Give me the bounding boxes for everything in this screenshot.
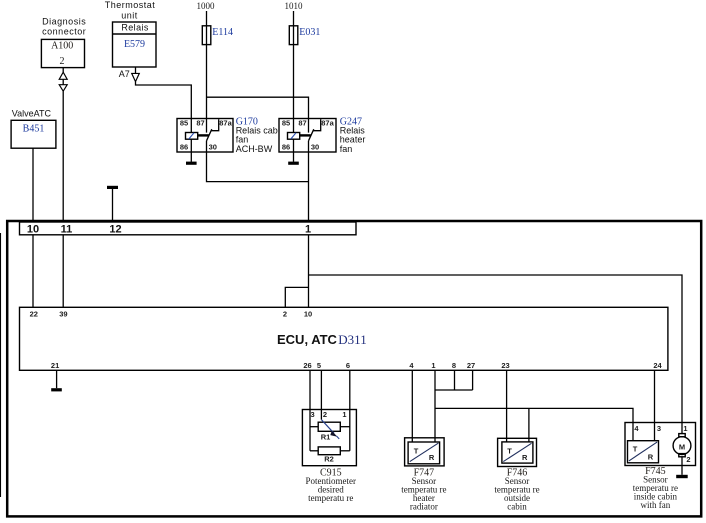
svg-text:1: 1 (305, 223, 311, 235)
connector arrow pair below A100 (59, 68, 67, 92)
F747 caption (401, 468, 446, 512)
wire G170 30 to node with G247 30 (207, 141, 309, 182)
svg-text:1010: 1010 (285, 1, 304, 11)
svg-text:3: 3 (657, 424, 661, 433)
G247 name label (340, 116, 366, 154)
fan motor M in F745 (673, 434, 691, 457)
svg-text:ECU, ATC: ECU, ATC (277, 332, 338, 347)
F745 T/R element (628, 441, 659, 463)
ground below G170 (186, 162, 197, 165)
ECU pin 22 (30, 310, 38, 319)
svg-text:R: R (648, 453, 654, 462)
bus pins 1-8-27 (435, 389, 473, 391)
svg-text:87a: 87a (219, 119, 232, 128)
wire G247 30 to strip pin 1 (308, 141, 310, 222)
svg-text:B451: B451 (23, 123, 45, 134)
resistor R2 (318, 447, 340, 464)
sensor F745 with fan (625, 423, 696, 466)
wire bus to F746 R (528, 408, 530, 442)
ECU pin 2 (283, 310, 287, 319)
scan artifact left edge (0, 233, 2, 497)
svg-text:unit: unit (121, 10, 138, 20)
svg-text:radiator: radiator (410, 502, 438, 512)
svg-text:Relais: Relais (121, 22, 149, 32)
svg-text:1: 1 (431, 361, 435, 370)
ECU pin 6 (346, 361, 350, 370)
C915 pin 2 (323, 410, 327, 419)
G170 coil (186, 133, 198, 140)
svg-text:1: 1 (683, 424, 687, 433)
ECU pin 8 (452, 361, 456, 370)
ECU pin 24 (653, 361, 662, 370)
G247 87a contact step (313, 119, 321, 131)
svg-text:D311: D311 (338, 332, 366, 347)
G170 coil ground wire (190, 139, 192, 162)
svg-text:ValveATC: ValveATC (12, 109, 52, 119)
wire strip 10 to ECU 22 (32, 235, 34, 307)
ECU pin 26 (303, 361, 311, 370)
svg-text:R2: R2 (324, 454, 334, 463)
svg-text:87: 87 (298, 119, 306, 128)
ECU box (20, 307, 668, 370)
svg-text:86: 86 (180, 143, 188, 152)
svg-text:cabin: cabin (507, 502, 527, 512)
svg-text:connector: connector (42, 27, 86, 37)
wire ECU 6 to C915 pin 1 rail (349, 370, 351, 451)
ECU pin 4 (409, 361, 414, 370)
svg-text:A7: A7 (119, 69, 130, 79)
pin 12 label (109, 223, 121, 235)
fuse E114 (202, 26, 233, 45)
svg-text:85: 85 (282, 119, 290, 128)
C915 right rail stubs (340, 427, 350, 451)
svg-text:T: T (414, 447, 419, 456)
wire strip 11 to ECU 39 (62, 235, 64, 307)
F745 pin 2 (686, 455, 690, 464)
C915 pin 1 (342, 410, 346, 419)
svg-text:12: 12 (109, 223, 121, 235)
svg-text:22: 22 (30, 310, 38, 319)
svg-text:Thermostat: Thermostat (105, 0, 156, 10)
svg-text:8: 8 (452, 361, 456, 370)
wire strip 1 to ECU 10 (308, 235, 310, 307)
svg-text:39: 39 (59, 310, 67, 319)
net 1010 (285, 1, 304, 11)
wire ECU 5 to C915 pin 2 wiper (320, 370, 322, 419)
wire ECU 27 to bus (472, 370, 474, 390)
G247 terminal 86 (282, 143, 290, 152)
svg-text:ACH-BW: ACH-BW (236, 144, 273, 154)
G170 mechanical link (198, 134, 209, 136)
svg-text:27: 27 (467, 361, 475, 370)
svg-text:21: 21 (51, 361, 59, 370)
svg-text:11: 11 (61, 223, 73, 235)
F746 caption (494, 468, 539, 512)
G247 coil (288, 133, 300, 140)
wire A100 pin2 to strip pin 11 (62, 91, 64, 222)
svg-text:fan: fan (340, 144, 353, 154)
ECU pin 39 (59, 310, 67, 319)
svg-text:86: 86 (282, 143, 290, 152)
pin 10 label (27, 223, 39, 235)
svg-text:Diagnosis: Diagnosis (42, 16, 86, 26)
wire ECU 23 to F746 T (506, 370, 508, 442)
connector A7 on E579 (119, 67, 140, 82)
svg-text:2: 2 (60, 56, 65, 67)
F745 pin 1 (683, 424, 687, 433)
G247 terminal 85 (282, 119, 290, 128)
ECU pin 23 (501, 361, 509, 370)
svg-text:2: 2 (323, 410, 327, 419)
C915 pin 3 (311, 410, 315, 419)
F745 pin 4 (634, 424, 639, 433)
net 1000 (197, 1, 216, 11)
sensor F747 (405, 438, 445, 466)
G170 terminal 87 (196, 119, 204, 128)
svg-text:2: 2 (686, 455, 690, 464)
svg-text:5: 5 (317, 361, 321, 370)
svg-text:E031: E031 (299, 27, 320, 38)
svg-text:R: R (522, 453, 528, 462)
svg-text:30: 30 (311, 143, 319, 152)
G247 terminal 87a (321, 119, 334, 128)
svg-text:E114: E114 (212, 27, 233, 38)
F745 pin 3 (657, 424, 661, 433)
relay G247 (279, 119, 336, 153)
wire ECU 8 to bus (454, 370, 456, 390)
ground below fan motor (676, 475, 688, 478)
svg-text:2: 2 (283, 310, 287, 319)
svg-text:T: T (633, 444, 638, 453)
potentiometer C915 (302, 410, 356, 466)
C915 left rail stubs (310, 427, 318, 451)
frame (diagram border) (7, 221, 701, 516)
fuse E031 (289, 26, 320, 45)
sensor F746 (498, 438, 537, 466)
wire 1000 to G170 terminal 87 (206, 11, 208, 133)
G170 87a contact step (211, 119, 219, 131)
svg-text:R: R (429, 453, 435, 462)
G247 coil ground wire (293, 139, 295, 162)
G247 terminal 87 (298, 119, 306, 128)
thermostat unit E579 (105, 0, 156, 67)
svg-text:E579: E579 (124, 39, 145, 50)
sensor supply bus to F746 R and F745 pin 4 (435, 408, 633, 440)
svg-text:1: 1 (342, 410, 346, 419)
ECU pin 10 (304, 310, 312, 319)
wire branch to fan motor pin 1 (309, 275, 683, 434)
G247 terminal 30 (311, 143, 319, 152)
ground at strip pin 12 (107, 186, 118, 222)
svg-text:85: 85 (180, 119, 188, 128)
ground at ECU pin 21 (51, 388, 62, 391)
G170 switch lever (207, 129, 212, 141)
svg-text:10: 10 (304, 310, 312, 319)
G247 switch lever (309, 129, 314, 141)
ECU pin 21 (51, 361, 59, 370)
pin 1 label (305, 223, 311, 235)
F745 caption (633, 466, 678, 510)
connector strip X (pins 10 11 12 1) (20, 222, 357, 235)
G170 terminal 87a (219, 119, 232, 128)
C915 caption (306, 468, 357, 504)
resistor R1 (318, 422, 340, 441)
ECU label ECU, ATC D311 (277, 332, 367, 347)
C915 wiper arrow (321, 420, 339, 439)
valve ATC B451 (11, 109, 56, 149)
wire motor pin 2 to ground (681, 457, 683, 475)
svg-text:M: M (679, 443, 685, 452)
svg-text:23: 23 (501, 361, 509, 370)
wire 87 bus from 1000 to G247 terminal 87 (207, 97, 309, 132)
svg-text:with fan: with fan (641, 500, 671, 510)
svg-text:6: 6 (346, 361, 350, 370)
ECU pin 5 (317, 361, 321, 370)
wire 1010 to G247 terminal 85 (293, 11, 295, 133)
svg-text:87a: 87a (321, 119, 334, 128)
G170 terminal 30 (209, 143, 217, 152)
svg-text:A100: A100 (51, 41, 73, 52)
svg-text:30: 30 (209, 143, 217, 152)
ECU pin 27 (467, 361, 475, 370)
diagnosis connector A100 (41, 16, 86, 67)
wire A7 to relay G170 terminal 85 (136, 82, 192, 133)
G170 terminal 85 (180, 119, 188, 128)
relay G170 (177, 119, 233, 153)
G170 name label (236, 116, 278, 154)
svg-text:3: 3 (311, 410, 315, 419)
pin 11 label (61, 223, 73, 235)
wire ECU 24 to F745 pin 3 (654, 370, 656, 440)
svg-text:R1: R1 (321, 433, 331, 442)
G170 terminal 86 (180, 143, 188, 152)
ground below G247 (288, 162, 299, 165)
ECU pin 1 (431, 361, 435, 370)
svg-text:1000: 1000 (197, 1, 216, 11)
G247 mechanical link (300, 134, 311, 136)
svg-text:87: 87 (196, 119, 204, 128)
svg-text:10: 10 (27, 223, 39, 235)
svg-text:temperatu re: temperatu re (308, 493, 353, 503)
wire ECU 1 to F747 R (434, 370, 436, 442)
wire B451 to strip pin 10 (32, 148, 34, 222)
svg-text:T: T (507, 447, 512, 456)
wire ECU 21 to ground (56, 370, 58, 388)
wire ECU 4 to F747 T (411, 370, 413, 442)
wire ECU 26 to C915 pin 3 rail (309, 370, 311, 451)
svg-text:26: 26 (303, 361, 311, 370)
wire branch to ECU 2 (285, 287, 308, 307)
svg-text:24: 24 (653, 361, 662, 370)
